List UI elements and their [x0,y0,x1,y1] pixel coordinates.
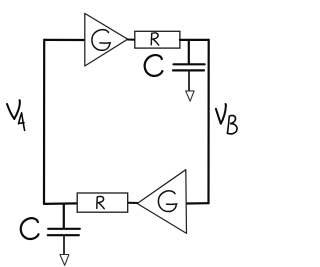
resistor R (bottom box) [77,193,128,212]
label C (bottom capacitor) [21,218,39,239]
wire top-right segment [180,39,209,41]
wire bottom-left segment [44,202,77,205]
capacitor C1 stub (top) [188,40,190,63]
wire amp-to-resistor (bottom) [128,202,137,204]
label G (bottom amp) [158,191,176,212]
ground (top right) [186,91,194,101]
capacitor C2 lower lead [63,236,65,254]
resistor R (top box) [135,31,180,48]
label R (bottom resistor) [97,196,104,208]
capacitor C1 lower lead [188,72,190,91]
label R (top resistor) [151,33,158,45]
label G (top amp) [92,30,110,51]
capacitor C1 plates (top) [174,63,205,65]
op-amp G (top, pointing right) [85,13,128,66]
label C (top capacitor) [145,55,163,76]
label VA [7,100,20,119]
capacitor C2 plates (bottom) [48,228,80,230]
capacitor C2 stub (bottom) [63,204,65,228]
wire amp-to-resistor (top) [128,39,136,41]
op-amp G (bottom, pointing left) [137,170,186,234]
wire top-left segment [44,39,85,41]
wire right-bottom segment [187,202,209,205]
wire left side (node VA) [43,40,45,204]
wire right side (node VB) [207,40,209,203]
label VB [216,104,226,124]
ground (bottom left) [60,255,69,266]
